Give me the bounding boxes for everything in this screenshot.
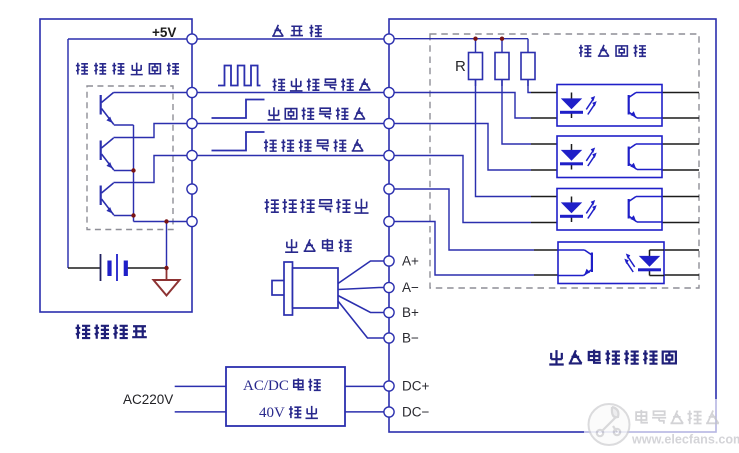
svg-text:AC/DC: AC/DC xyxy=(243,378,289,394)
svg-text:A+: A+ xyxy=(402,254,419,269)
svg-text:40V: 40V xyxy=(259,405,285,421)
svg-text:+5V: +5V xyxy=(152,25,176,40)
svg-text:www.elecfans.com: www.elecfans.com xyxy=(631,433,739,447)
svg-text:B−: B− xyxy=(402,331,419,346)
svg-text:R: R xyxy=(455,58,466,75)
svg-text:AC220V: AC220V xyxy=(123,392,173,407)
svg-text:DC+: DC+ xyxy=(402,379,429,394)
svg-text:DC−: DC− xyxy=(402,405,429,420)
svg-text:A−: A− xyxy=(402,280,419,295)
svg-text:B+: B+ xyxy=(402,305,419,320)
